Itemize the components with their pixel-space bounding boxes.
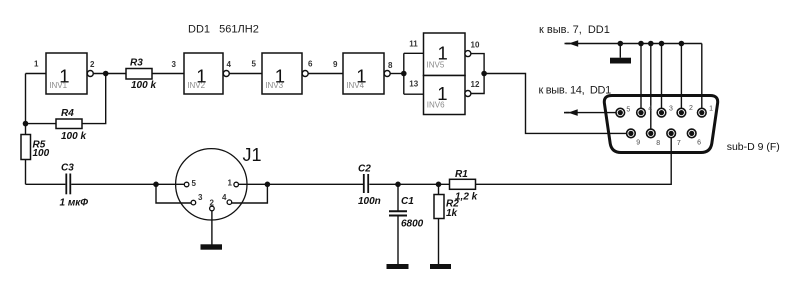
svg-text:1 мкФ: 1 мкФ	[60, 198, 89, 209]
svg-text:100 k: 100 k	[131, 80, 156, 91]
svg-text:6800: 6800	[401, 219, 424, 230]
wire J1 to C2	[267, 183, 363, 185]
wire INV2 to INV3	[229, 73, 262, 75]
svg-text:INV1: INV1	[49, 81, 67, 90]
ground bar top	[610, 58, 631, 64]
node dot pin2	[679, 41, 685, 47]
sub-D pin 5	[616, 108, 625, 117]
arrow to DD1 pin 7	[565, 43, 571, 45]
J1 pin 2	[210, 206, 215, 211]
svg-text:INV5: INV5	[427, 60, 445, 69]
wire R5 down to C3 line	[25, 160, 27, 185]
svg-text:100 k: 100 k	[61, 131, 86, 142]
inverter gate INV6 (DD1)	[424, 76, 466, 115]
svg-text:C2: C2	[358, 164, 371, 175]
svg-text:к выв. 7, DD1: к выв. 7, DD1	[539, 24, 610, 36]
svg-text:3: 3	[198, 193, 203, 202]
inverter gate INV5 (DD1)	[424, 33, 466, 76]
svg-text:13: 13	[409, 80, 418, 89]
resistor R3	[126, 58, 156, 92]
svg-text:4: 4	[227, 60, 232, 69]
bubble INV1 output	[87, 71, 93, 77]
svg-text:к выв. 14, DD1: к выв. 14, DD1	[539, 84, 612, 96]
resistor R2	[434, 195, 459, 220]
svg-text:J1: J1	[243, 145, 262, 165]
svg-text:sub-D 9 (F): sub-D 9 (F)	[727, 141, 780, 153]
wire INV1 output	[93, 73, 126, 75]
inverter gate INV3 (DD1)	[262, 53, 302, 94]
svg-text:9: 9	[636, 139, 640, 146]
wire pin 11 stub	[404, 52, 424, 54]
resistor R5	[21, 135, 50, 160]
capacitor C3	[60, 163, 89, 209]
svg-text:1: 1	[34, 60, 39, 69]
svg-text:10: 10	[471, 41, 480, 50]
wire pin1 to right node	[239, 183, 268, 185]
svg-text:1: 1	[228, 179, 233, 188]
wire C1 top	[397, 184, 399, 210]
svg-text:8: 8	[388, 61, 393, 70]
wire node down to pin 4	[232, 184, 268, 203]
wire INV5 output	[471, 54, 484, 74]
sub-D pin 8	[647, 129, 656, 138]
wire R2 bottom	[438, 219, 440, 265]
svg-text:INV4: INV4	[346, 81, 364, 90]
wire to pin 8	[650, 44, 652, 130]
svg-text:8: 8	[656, 140, 660, 147]
sub-D pin 7	[667, 129, 676, 138]
svg-text:9: 9	[333, 60, 338, 69]
svg-text:INV3: INV3	[265, 81, 283, 90]
wire to pin 4	[640, 44, 642, 109]
svg-text:INV2: INV2	[187, 81, 205, 90]
resistor R4	[56, 108, 86, 142]
wire to sub-D pin 5	[566, 112, 616, 114]
ground C1	[387, 264, 409, 269]
svg-text:6: 6	[697, 139, 701, 146]
wire C2 to R1	[369, 183, 449, 185]
svg-text:7: 7	[677, 140, 681, 147]
wire R2 top	[438, 184, 440, 194]
J1 pin 4	[227, 200, 232, 205]
capacitor C2	[358, 164, 381, 208]
wire C1 bottom	[397, 217, 399, 265]
wire node to R4	[26, 123, 57, 125]
wire to pin 2	[680, 44, 682, 109]
svg-text:DD1 561ЛН2: DD1 561ЛН2	[188, 24, 259, 36]
wire input split vertical	[403, 53, 405, 94]
svg-text:4: 4	[222, 193, 227, 202]
inverter gate INV2 (DD1)	[184, 53, 223, 94]
inverter gate INV1 (DD1)	[46, 53, 87, 94]
svg-text:1k: 1k	[446, 208, 458, 219]
connector J1 body	[176, 149, 247, 220]
bubble INV6 output	[465, 91, 471, 97]
wire output to sub-D pin 9	[484, 74, 627, 134]
arrow to DD1 pin 14	[564, 112, 570, 114]
wire INV6 output	[471, 74, 484, 94]
wire left feedback vertical	[25, 74, 27, 136]
node junction right of J1	[265, 182, 271, 188]
bubble INV4 output	[384, 71, 390, 77]
svg-text:2: 2	[90, 60, 95, 69]
bubble INV2 output	[223, 71, 229, 77]
node junction before INV5/INV6	[401, 71, 407, 77]
ground J1	[201, 244, 223, 249]
bubble INV3 output	[302, 71, 308, 77]
node dot pin3	[659, 41, 665, 47]
wire ground stub	[619, 44, 621, 58]
svg-text:2: 2	[689, 105, 693, 112]
node dot ground stub	[618, 41, 624, 47]
wire ground bus top	[566, 43, 702, 45]
resistor R1	[450, 169, 478, 203]
node dot pin4	[638, 41, 644, 47]
J1 pin 1	[234, 182, 239, 187]
svg-text:5: 5	[252, 60, 257, 69]
ground R2	[430, 264, 451, 269]
svg-text:100: 100	[33, 148, 50, 159]
sub-D pin 2	[677, 108, 686, 117]
wire R3 to INV2	[152, 73, 184, 75]
node junction after INV1	[103, 71, 109, 77]
node dot pin8	[648, 41, 654, 47]
sub-D pin 3	[657, 108, 666, 117]
svg-text:1: 1	[709, 106, 713, 113]
wire INV4 output to node	[390, 73, 404, 75]
bubble INV5 output	[465, 51, 471, 57]
svg-text:INV6: INV6	[427, 100, 445, 109]
svg-text:3: 3	[172, 60, 177, 69]
sub-D pin 6	[687, 129, 696, 138]
wire INV1 feedback node	[23, 121, 29, 127]
node junction left of J1	[153, 182, 159, 188]
wire INV3 to INV4	[308, 73, 343, 75]
sub-D pin 4	[637, 108, 646, 117]
svg-text:C1: C1	[401, 196, 414, 207]
svg-text:12: 12	[471, 80, 480, 89]
wire pin 2 to ground	[211, 211, 213, 245]
wire node down to pin 3	[156, 184, 191, 203]
svg-text:5: 5	[626, 106, 630, 113]
svg-text:R4: R4	[61, 108, 74, 119]
capacitor C1	[389, 196, 424, 230]
wire pin1 INV1 input horizontal	[26, 73, 47, 75]
svg-text:R1: R1	[455, 169, 468, 180]
wire C3 to J1	[71, 183, 184, 185]
svg-text:1,2 k: 1,2 k	[455, 192, 478, 203]
svg-text:3: 3	[669, 106, 673, 113]
connector sub-D 9 body	[604, 96, 717, 153]
node junction R2	[436, 182, 442, 188]
wire R1 to sub-D pin 7	[476, 137, 672, 184]
svg-text:100n: 100n	[358, 196, 381, 207]
svg-text:R3: R3	[130, 58, 143, 69]
svg-text:6: 6	[308, 60, 313, 69]
svg-text:2: 2	[210, 199, 215, 208]
sub-D pin 9	[627, 129, 636, 138]
inverter gate INV4 (DD1)	[343, 53, 384, 94]
svg-text:C3: C3	[61, 163, 74, 174]
svg-text:5: 5	[192, 179, 197, 188]
wire to pin 3	[661, 44, 663, 109]
node junction outputs INV5/INV6	[481, 71, 487, 77]
svg-text:4: 4	[648, 106, 652, 113]
wire to pin 1	[701, 44, 703, 109]
J1 pin 3	[191, 200, 196, 205]
sub-D pin 1	[698, 108, 707, 117]
svg-text:11: 11	[409, 40, 418, 49]
node junction C1	[395, 182, 401, 188]
wire pin 13 stub	[404, 93, 424, 95]
wire to C3	[26, 183, 66, 185]
J1 pin 5	[184, 182, 189, 187]
wire R4 to node A	[82, 74, 106, 124]
